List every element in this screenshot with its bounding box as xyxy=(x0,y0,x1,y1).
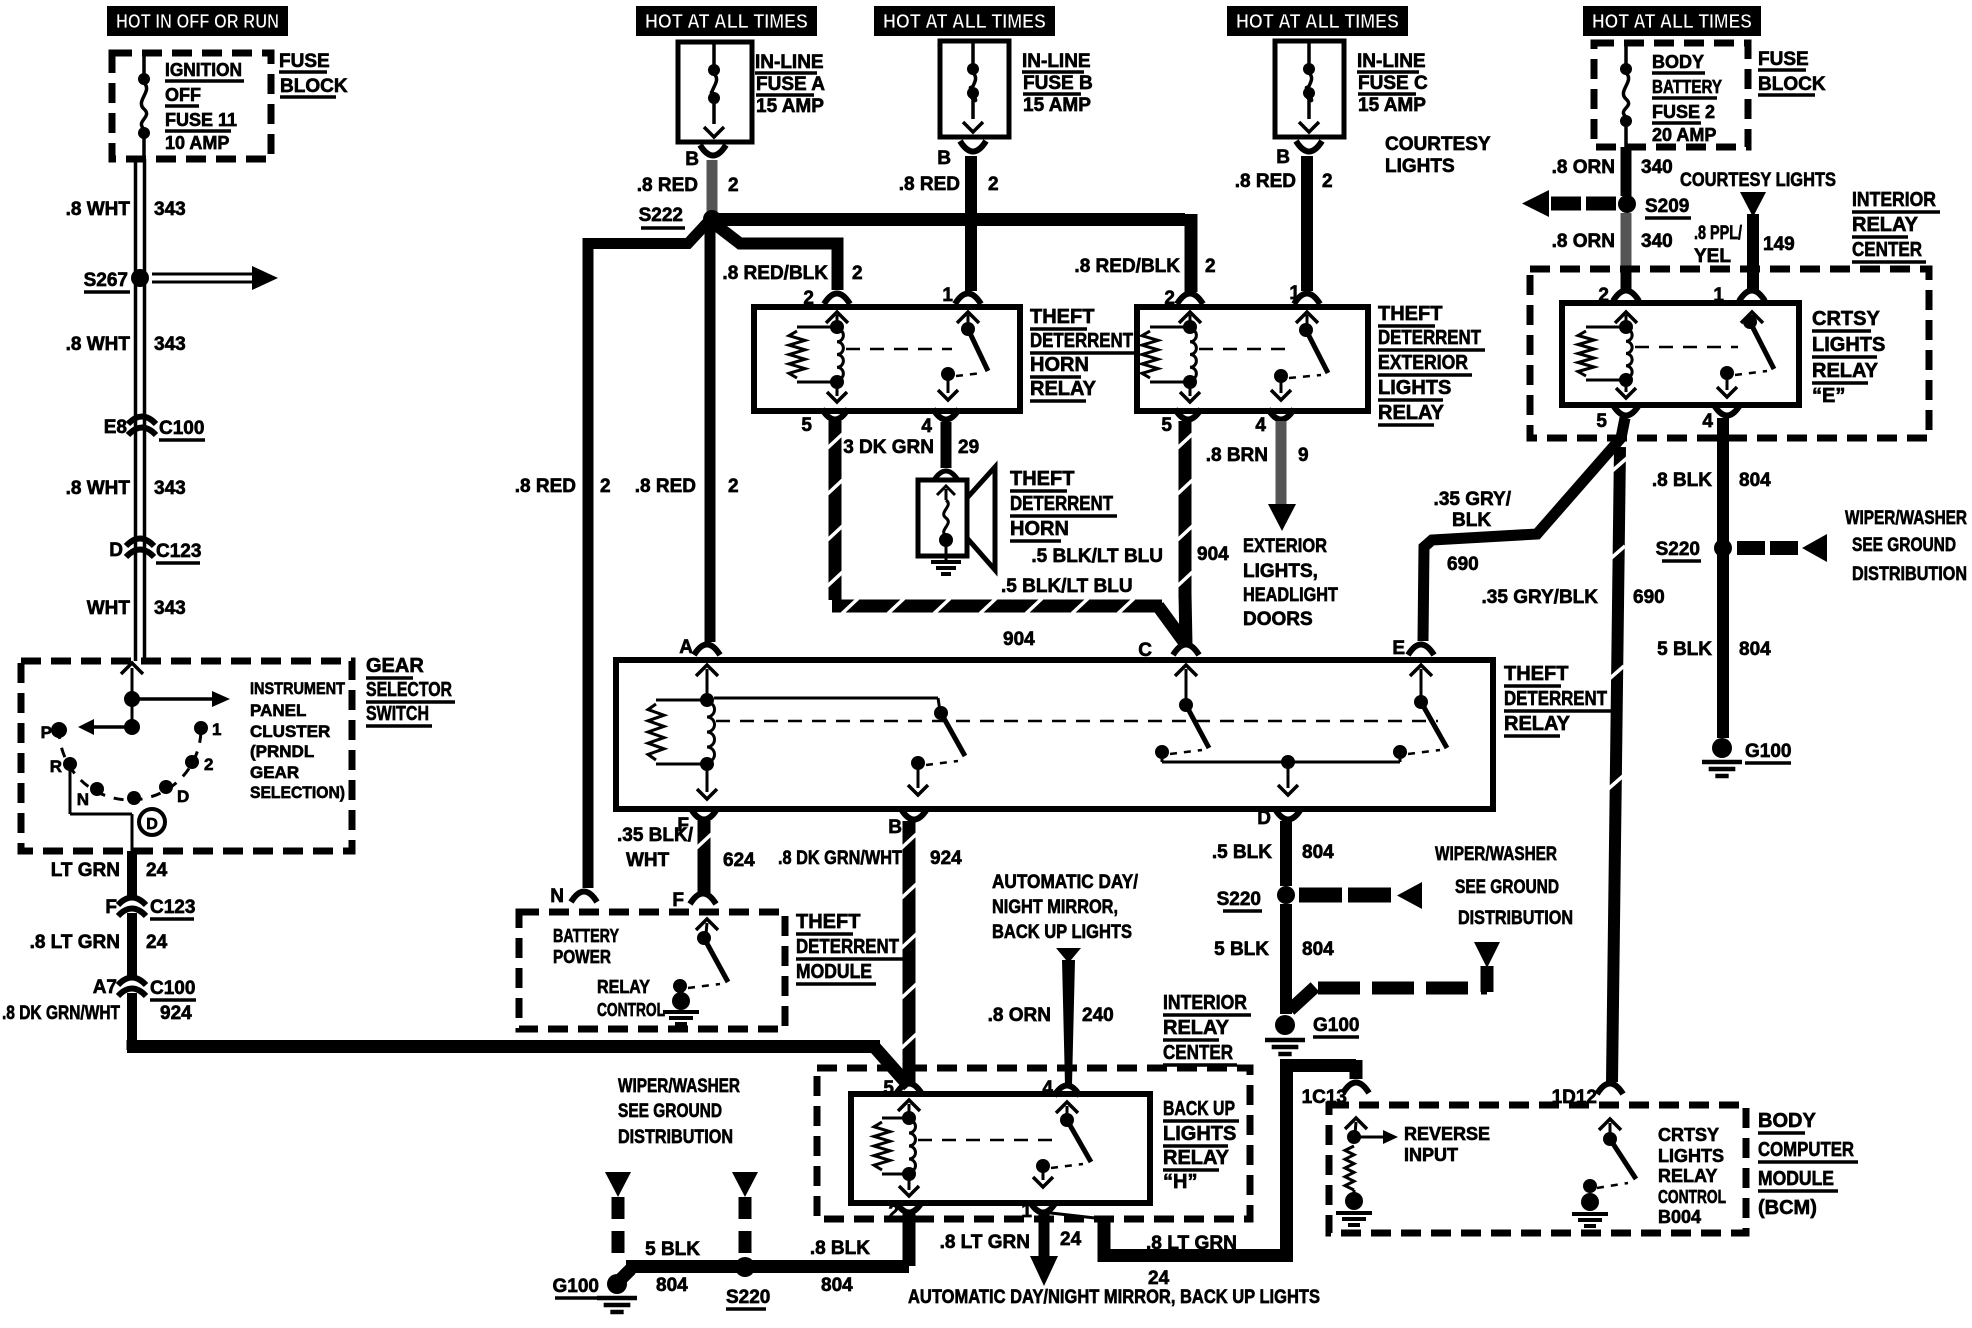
crtsy relay pin 2 arrow xyxy=(1615,312,1637,323)
svg-text:LT GRN: LT GRN xyxy=(51,860,120,881)
wire .8 RED 2 (fuse B to horn relay pin 1) xyxy=(965,156,977,291)
svg-text:.8 RED: .8 RED xyxy=(635,476,696,497)
svg-text:.8 LT GRN: .8 LT GRN xyxy=(1146,1233,1237,1254)
wire 3 DK GRN 29 xyxy=(941,422,952,468)
svg-text:5 BLK: 5 BLK xyxy=(1214,939,1269,960)
svg-text:.8 PPL/: .8 PPL/ xyxy=(1694,223,1743,244)
svg-text:804: 804 xyxy=(1739,470,1771,491)
theft relay coil to pin F xyxy=(706,764,709,792)
svg-text:343: 343 xyxy=(154,478,186,499)
BCM crtsy lights relay control switch xyxy=(1603,1132,1617,1146)
svg-text:FUSE C: FUSE C xyxy=(1358,73,1428,94)
svg-text:2: 2 xyxy=(888,1202,899,1223)
theft relay linkage (dashed) xyxy=(716,720,1438,723)
horn relay pin 2 arrow xyxy=(826,312,848,323)
svg-text:CLUSTER: CLUSTER xyxy=(250,722,330,741)
off-page arrow to G100 (left) xyxy=(605,1172,631,1197)
svg-text:DETERRENT: DETERRENT xyxy=(1378,327,1481,349)
header label HOT AT ALL TIMES (fuse B) xyxy=(874,6,1055,36)
crtsy relay linkage (dashed) xyxy=(1635,346,1738,349)
svg-text:24: 24 xyxy=(146,860,168,881)
exterior relay pin 1 arrow xyxy=(1296,312,1318,323)
wire to S220 (dashed) xyxy=(739,1197,752,1260)
crtsy relay pin 2 connector xyxy=(1613,291,1639,302)
svg-text:YEL: YEL xyxy=(1694,246,1731,267)
svg-text:340: 340 xyxy=(1641,157,1673,178)
BCM 1C13 arrow xyxy=(1345,1118,1367,1129)
svg-text:BLOCK: BLOCK xyxy=(1758,74,1826,95)
connector C123 (D) xyxy=(126,539,154,547)
svg-text:RELAY: RELAY xyxy=(1030,378,1097,400)
S220 reference arrow (center) xyxy=(1299,888,1342,903)
crtsy relay pin 5 connector xyxy=(1613,405,1639,416)
BCM reverse input node xyxy=(1347,1130,1361,1144)
contact P xyxy=(51,722,67,738)
svg-text:.8 DK GRN/WHT: .8 DK GRN/WHT xyxy=(778,848,902,869)
svg-text:D: D xyxy=(177,787,189,806)
svg-text:DETERRENT: DETERRENT xyxy=(1030,330,1133,352)
svg-text:PANEL: PANEL xyxy=(250,701,306,720)
horn relay pin 2 connector xyxy=(824,294,850,305)
svg-text:1C13: 1C13 xyxy=(1302,1087,1347,1108)
svg-text:GEAR: GEAR xyxy=(250,763,299,782)
svg-text:2: 2 xyxy=(803,288,814,309)
crtsy lights relay box xyxy=(1562,303,1799,405)
svg-text:CRTSY: CRTSY xyxy=(1658,1125,1719,1145)
svg-text:2: 2 xyxy=(728,476,739,497)
svg-text:OFF: OFF xyxy=(165,85,201,105)
connector B (fuse B) xyxy=(960,141,986,152)
wire from R contact to output xyxy=(69,764,72,814)
theft relay switch B xyxy=(714,697,938,700)
svg-text:S222: S222 xyxy=(639,205,683,226)
svg-text:S220: S220 xyxy=(726,1287,770,1308)
svg-text:15 AMP: 15 AMP xyxy=(756,96,824,117)
wire to off-page ground (dashed thick) xyxy=(1290,987,1315,1010)
svg-text:4: 4 xyxy=(1042,1078,1053,1099)
pin C arrow xyxy=(1175,665,1197,676)
svg-text:COURTESY: COURTESY xyxy=(1385,134,1491,155)
svg-text:SELECTION): SELECTION) xyxy=(250,783,345,802)
svg-text:RELAY: RELAY xyxy=(1658,1166,1717,1186)
in-line fuse A box xyxy=(678,42,752,142)
wire .8 ORN 240 xyxy=(1062,960,1075,1085)
svg-text:S220: S220 xyxy=(1656,539,1700,560)
theft deterrent horn relay box xyxy=(754,307,1020,411)
svg-text:HORN: HORN xyxy=(1030,354,1089,376)
ground G100 (center) xyxy=(1275,1015,1295,1035)
svg-text:904: 904 xyxy=(1197,544,1229,565)
svg-text:RELAY: RELAY xyxy=(1812,360,1879,382)
exterior relay coil xyxy=(1183,320,1197,334)
module pin F connector xyxy=(690,894,716,905)
contact D xyxy=(159,780,173,794)
theft deterrent horn connector xyxy=(934,471,958,480)
svg-text:.8 ORN: .8 ORN xyxy=(988,1005,1051,1026)
svg-text:804: 804 xyxy=(656,1275,688,1296)
svg-text:HOT AT ALL TIMES: HOT AT ALL TIMES xyxy=(883,11,1046,33)
svg-text:804: 804 xyxy=(1302,842,1334,863)
svg-text:924: 924 xyxy=(160,1003,192,1024)
svg-text:IN-LINE: IN-LINE xyxy=(1357,51,1426,72)
theft deterrent relay box xyxy=(616,660,1493,809)
fuse FUSE 11 symbol xyxy=(142,53,146,79)
svg-text:24: 24 xyxy=(146,932,168,953)
svg-text:804: 804 xyxy=(1739,639,1771,660)
wire .8 ORN 340 (upper) xyxy=(1621,147,1632,196)
connector C100 (E8) xyxy=(128,417,156,425)
crtsy relay pin 4 connector xyxy=(1714,405,1740,416)
svg-text:LIGHTS: LIGHTS xyxy=(1385,156,1455,177)
svg-text:.5 BLK/LT BLU: .5 BLK/LT BLU xyxy=(1001,576,1133,597)
svg-text:EXTERIOR: EXTERIOR xyxy=(1243,536,1327,557)
fuse A element xyxy=(712,44,716,70)
svg-text:FUSE 2: FUSE 2 xyxy=(1652,102,1715,122)
svg-text:CONTROL: CONTROL xyxy=(1658,1187,1726,1207)
svg-text:.8 DK GRN/WHT: .8 DK GRN/WHT xyxy=(2,1003,120,1024)
svg-text:1: 1 xyxy=(1021,1201,1032,1222)
horn relay coil xyxy=(830,320,844,334)
svg-text:F: F xyxy=(105,897,117,918)
svg-text:D: D xyxy=(146,816,158,833)
svg-text:RELAY: RELAY xyxy=(1504,713,1571,735)
svg-text:IN-LINE: IN-LINE xyxy=(755,52,824,73)
crtsy relay coil to pin 5 xyxy=(1625,380,1628,392)
svg-text:CONTROL: CONTROL xyxy=(597,1000,665,1020)
svg-text:B004: B004 xyxy=(1658,1207,1701,1227)
horn relay pin 1 arrow xyxy=(957,312,979,323)
svg-text:.5 BLK: .5 BLK xyxy=(1212,842,1272,863)
svg-text:.8 RED: .8 RED xyxy=(1235,171,1296,192)
svg-text:BODY: BODY xyxy=(1758,1110,1816,1132)
svg-text:WHT: WHT xyxy=(87,598,131,619)
svg-text:G100: G100 xyxy=(1313,1015,1359,1036)
svg-text:C100: C100 xyxy=(159,418,204,439)
wire 343 double-line (fuse 11 to gear selector) xyxy=(134,159,138,661)
pin C connector xyxy=(1173,645,1199,656)
svg-text:5: 5 xyxy=(1161,415,1172,436)
svg-text:340: 340 xyxy=(1641,231,1673,252)
svg-text:WHT: WHT xyxy=(626,850,670,871)
horn relay pin 1 connector xyxy=(955,294,981,305)
svg-text:THEFT: THEFT xyxy=(1378,303,1442,325)
svg-text:RELAY: RELAY xyxy=(597,977,650,997)
svg-text:.8 ORN: .8 ORN xyxy=(1552,157,1615,178)
svg-text:2: 2 xyxy=(600,476,611,497)
svg-text:INTERIOR: INTERIOR xyxy=(1852,189,1936,211)
splice S222 xyxy=(703,210,721,228)
S220 reference arrow (right) xyxy=(1737,541,1765,555)
contact 2 xyxy=(185,755,199,769)
splice S209 xyxy=(1618,195,1636,213)
svg-text:INSTRUMENT: INSTRUMENT xyxy=(250,679,346,698)
exterior relay coil to pin 5 xyxy=(1189,382,1192,396)
ground G100 (right) xyxy=(1712,738,1732,758)
back-up relay switch xyxy=(1060,1113,1074,1127)
svg-text:LIGHTS,: LIGHTS, xyxy=(1243,561,1318,582)
module ground xyxy=(672,992,690,1010)
svg-text:29: 29 xyxy=(958,437,979,458)
splice S267 xyxy=(131,269,149,287)
svg-text:.8 RED: .8 RED xyxy=(515,476,576,497)
BCM 1D12 arrow xyxy=(1599,1119,1621,1130)
wire .8 ORN 340 (lower, speckled) xyxy=(1621,213,1632,268)
exterior relay pin 1 connector xyxy=(1294,294,1320,305)
svg-text:FUSE B: FUSE B xyxy=(1023,73,1093,94)
svg-text:.35 BLK/: .35 BLK/ xyxy=(617,825,694,846)
connector B (fuse A) xyxy=(700,145,726,156)
wire .35 GRY/BLK 690 (to E) xyxy=(1423,418,1625,641)
BCM ground (1C13) xyxy=(1345,1192,1363,1210)
svg-text:COMPUTER: COMPUTER xyxy=(1758,1139,1854,1161)
header label HOT IN OFF OR RUN xyxy=(107,6,288,36)
back-up relay coil to pin 2 xyxy=(908,1174,911,1190)
svg-text:.8 WHT: .8 WHT xyxy=(66,334,131,355)
back-up relay pin 5 arrow xyxy=(898,1100,920,1111)
svg-text:B: B xyxy=(937,148,951,169)
theft deterrent horn speaker xyxy=(918,480,967,556)
module internal arrow F xyxy=(696,919,718,930)
wire 924 (.8 DK GRN/WHT) xyxy=(127,993,137,1042)
svg-text:BACK UP LIGHTS: BACK UP LIGHTS xyxy=(992,922,1132,943)
svg-text:(BCM): (BCM) xyxy=(1758,1197,1817,1219)
svg-text:DISTRIBUTION: DISTRIBUTION xyxy=(1852,564,1967,585)
svg-text:C: C xyxy=(1138,640,1152,661)
interior relay center box (dashed) xyxy=(1530,269,1929,438)
pin D connector xyxy=(1275,809,1301,820)
svg-text:1D12: 1D12 xyxy=(1552,1087,1597,1108)
svg-text:A: A xyxy=(679,637,693,658)
svg-text:S209: S209 xyxy=(1645,196,1689,217)
svg-text:THEFT: THEFT xyxy=(1010,468,1074,490)
svg-text:690: 690 xyxy=(1447,554,1479,575)
pin E connector xyxy=(1408,645,1434,656)
svg-text:690: 690 xyxy=(1633,587,1665,608)
svg-text:.8 ORN: .8 ORN xyxy=(1552,231,1615,252)
crtsy relay pin 1 connector xyxy=(1739,291,1765,302)
wire 904 (exterior relay pin 5 to C) xyxy=(1179,421,1192,598)
pin E arrow xyxy=(1410,665,1432,676)
svg-text:IGNITION: IGNITION xyxy=(165,60,242,80)
svg-text:P: P xyxy=(41,723,52,742)
svg-text:NIGHT MIRROR,: NIGHT MIRROR, xyxy=(992,897,1118,918)
svg-text:IN-LINE: IN-LINE xyxy=(1022,51,1091,72)
svg-text:5: 5 xyxy=(883,1078,894,1099)
svg-text:B: B xyxy=(1276,147,1290,168)
BCM resistor xyxy=(1345,1146,1354,1190)
svg-text:924: 924 xyxy=(930,848,962,869)
svg-text:.8 WHT: .8 WHT xyxy=(66,199,131,220)
wire .5 BLK/LT BLU (horn relay pin 5 down) xyxy=(829,421,842,600)
wire to G100 (dashed) xyxy=(612,1197,625,1262)
theft deterrent module box (dashed) xyxy=(519,912,785,1029)
svg-text:COURTESY LIGHTS: COURTESY LIGHTS xyxy=(1680,170,1836,191)
svg-text:D: D xyxy=(1257,808,1271,829)
svg-text:9: 9 xyxy=(1298,445,1309,466)
svg-text:.8 BRN: .8 BRN xyxy=(1206,445,1268,466)
svg-text:A7: A7 xyxy=(93,977,117,998)
svg-text:RELAY: RELAY xyxy=(1163,1017,1230,1039)
svg-text:343: 343 xyxy=(154,199,186,220)
module pin N connector xyxy=(571,892,597,903)
svg-text:RELAY: RELAY xyxy=(1852,214,1919,236)
svg-text:LIGHTS: LIGHTS xyxy=(1378,377,1451,399)
header label HOT AT ALL TIMES (fuse A) xyxy=(636,6,817,36)
svg-text:.8 WHT: .8 WHT xyxy=(66,478,131,499)
svg-text:2: 2 xyxy=(728,175,739,196)
pin F connector xyxy=(691,809,717,820)
back-up relay coil xyxy=(902,1111,916,1125)
svg-text:.8 RED: .8 RED xyxy=(899,174,960,195)
exterior relay pin 2 connector xyxy=(1177,294,1203,305)
svg-text:EXTERIOR: EXTERIOR xyxy=(1378,352,1468,374)
svg-text:CRTSY: CRTSY xyxy=(1812,308,1880,330)
svg-text:.8 BLK: .8 BLK xyxy=(810,1238,870,1259)
svg-text:4: 4 xyxy=(921,416,932,437)
svg-text:BLK: BLK xyxy=(1452,510,1491,531)
wire .8 BLK 804 (crtsy pin 4 down) xyxy=(1717,418,1729,738)
svg-text:REVERSE: REVERSE xyxy=(1404,1124,1490,1144)
svg-text:R: R xyxy=(50,757,62,776)
svg-text:.8 RED/BLK: .8 RED/BLK xyxy=(722,263,828,284)
ground G100 (bottom) xyxy=(607,1274,627,1294)
gear selector switch box (dashed) xyxy=(21,661,352,851)
wire .8 PPL/YEL 149 xyxy=(1747,214,1759,291)
in-line fuse B box xyxy=(940,41,1009,137)
wire .5 BLK 804 (D down) xyxy=(1280,821,1292,886)
svg-text:MODULE: MODULE xyxy=(796,961,872,983)
exterior relay pin 5 connector xyxy=(1175,409,1201,420)
svg-text:.35 GRY/: .35 GRY/ xyxy=(1434,489,1512,510)
svg-text:DETERRENT: DETERRENT xyxy=(796,936,899,958)
svg-text:3 DK GRN: 3 DK GRN xyxy=(843,437,934,458)
svg-text:BATTERY: BATTERY xyxy=(553,926,619,946)
svg-text:SEE GROUND: SEE GROUND xyxy=(1455,877,1559,898)
BCM ground (1D12) xyxy=(1581,1193,1599,1211)
svg-text:SWITCH: SWITCH xyxy=(366,703,429,725)
bottom ground bus xyxy=(626,1260,909,1273)
gear selector node (wiper) xyxy=(124,719,140,735)
horn relay coil to pin 5 xyxy=(836,382,839,396)
horn relay linkage (dashed) xyxy=(846,348,952,351)
svg-text:2: 2 xyxy=(1598,285,1609,306)
svg-text:343: 343 xyxy=(154,334,186,355)
pin A connector xyxy=(694,645,720,656)
wire .8 RED 2 (S222 to module N) xyxy=(588,223,707,888)
svg-text:“E”: “E” xyxy=(1812,385,1845,407)
svg-text:RELAY: RELAY xyxy=(1378,402,1445,424)
svg-text:2: 2 xyxy=(1322,171,1333,192)
crtsy relay switch xyxy=(1743,315,1757,329)
contact (bottom) xyxy=(127,791,141,805)
contact 1 xyxy=(194,721,208,735)
svg-text:HOT IN OFF OR RUN: HOT IN OFF OR RUN xyxy=(116,11,279,33)
horn ground xyxy=(945,540,948,560)
back-up relay pin 4 connector xyxy=(1054,1086,1080,1097)
back-up relay pin 4 arrow xyxy=(1056,1102,1078,1113)
svg-text:5 BLK: 5 BLK xyxy=(1657,639,1712,660)
gear selector contact arc (dashed) xyxy=(59,729,201,800)
svg-text:904: 904 xyxy=(1003,629,1035,650)
fuse BODY BATTERY FUSE 2 element xyxy=(1624,43,1628,69)
svg-text:CENTER: CENTER xyxy=(1163,1042,1233,1064)
theft relay switch C xyxy=(1179,698,1193,712)
splice S220 (center) xyxy=(1277,886,1295,904)
svg-text:F: F xyxy=(672,890,684,911)
module relay control switch xyxy=(697,931,711,945)
svg-text:10 AMP: 10 AMP xyxy=(165,133,229,153)
svg-text:BLOCK: BLOCK xyxy=(280,76,348,97)
svg-text:BATTERY: BATTERY xyxy=(1652,77,1722,97)
svg-text:WIPER/WASHER: WIPER/WASHER xyxy=(1845,508,1967,529)
svg-text:POWER: POWER xyxy=(553,947,611,967)
theft relay output bus xyxy=(1161,752,1164,762)
theft relay coil xyxy=(700,693,714,707)
gear selector wiper arrow to P xyxy=(94,725,132,729)
svg-text:149: 149 xyxy=(1763,234,1795,255)
back-up relay linkage (dashed) xyxy=(918,1139,1052,1142)
svg-text:20 AMP: 20 AMP xyxy=(1652,125,1716,145)
svg-text:.8 RED/BLK: .8 RED/BLK xyxy=(1074,256,1180,277)
svg-text:2: 2 xyxy=(1164,288,1175,309)
svg-text:4: 4 xyxy=(1702,411,1713,432)
svg-text:BACK UP: BACK UP xyxy=(1163,1098,1235,1120)
exterior relay linkage (dashed) xyxy=(1199,348,1292,351)
svg-text:5 BLK: 5 BLK xyxy=(645,1239,700,1260)
svg-text:15 AMP: 15 AMP xyxy=(1358,95,1426,116)
svg-text:FUSE: FUSE xyxy=(1758,49,1809,70)
exterior relay pin 2 arrow xyxy=(1179,312,1201,323)
svg-text:.35 GRY/BLK: .35 GRY/BLK xyxy=(1482,587,1599,608)
wire .8 BRN 9 (speckled) xyxy=(1276,421,1287,507)
back-up relay pin 2 connector xyxy=(896,1202,922,1213)
exterior relay switch xyxy=(1299,323,1313,337)
svg-text:S267: S267 xyxy=(84,270,128,291)
svg-text:SEE GROUND: SEE GROUND xyxy=(1852,535,1956,556)
svg-text:(PRNDL: (PRNDL xyxy=(250,742,314,761)
svg-text:S220: S220 xyxy=(1217,889,1261,910)
svg-text:HORN: HORN xyxy=(1010,518,1069,540)
svg-text:DISTRIBUTION: DISTRIBUTION xyxy=(1458,908,1573,929)
fuse block (right, dashed) xyxy=(1594,43,1748,147)
wire .8 LT GRN 24 (to 1C13) xyxy=(1042,1212,1104,1219)
gear selector wire entry arrow xyxy=(121,663,143,674)
arrow from automatic day/night mirror xyxy=(1056,948,1081,963)
crtsy relay pin 1 arrow xyxy=(1741,312,1763,323)
svg-text:.8 LT GRN: .8 LT GRN xyxy=(940,1232,1030,1253)
svg-text:THEFT: THEFT xyxy=(1504,663,1568,685)
arrow .8 PPL/YEL from courtesy lights xyxy=(1740,192,1766,217)
svg-text:.5 BLK/LT BLU: .5 BLK/LT BLU xyxy=(1031,546,1163,567)
svg-text:B: B xyxy=(888,817,902,838)
svg-text:5: 5 xyxy=(801,415,812,436)
splice S220 (bottom) xyxy=(735,1257,755,1277)
S267 reference arrow xyxy=(152,273,252,276)
wire bus S222 to exterior relay pin 2 xyxy=(706,213,1185,226)
svg-text:FUSE: FUSE xyxy=(279,51,330,72)
off-page arrow (down, center-right) xyxy=(1474,942,1500,968)
svg-text:24: 24 xyxy=(1060,1229,1082,1250)
fuse B element xyxy=(971,43,975,69)
svg-text:RELAY: RELAY xyxy=(1163,1147,1230,1169)
svg-text:624: 624 xyxy=(723,850,755,871)
svg-text:“H”: “H” xyxy=(1163,1171,1197,1193)
svg-text:DETERRENT: DETERRENT xyxy=(1010,493,1113,515)
svg-text:CENTER: CENTER xyxy=(1852,239,1922,261)
svg-text:N: N xyxy=(77,790,89,809)
wire .35 BLK/WHT 624 (F to module) xyxy=(698,821,711,896)
back-up relay pin 5 connector xyxy=(896,1084,922,1095)
